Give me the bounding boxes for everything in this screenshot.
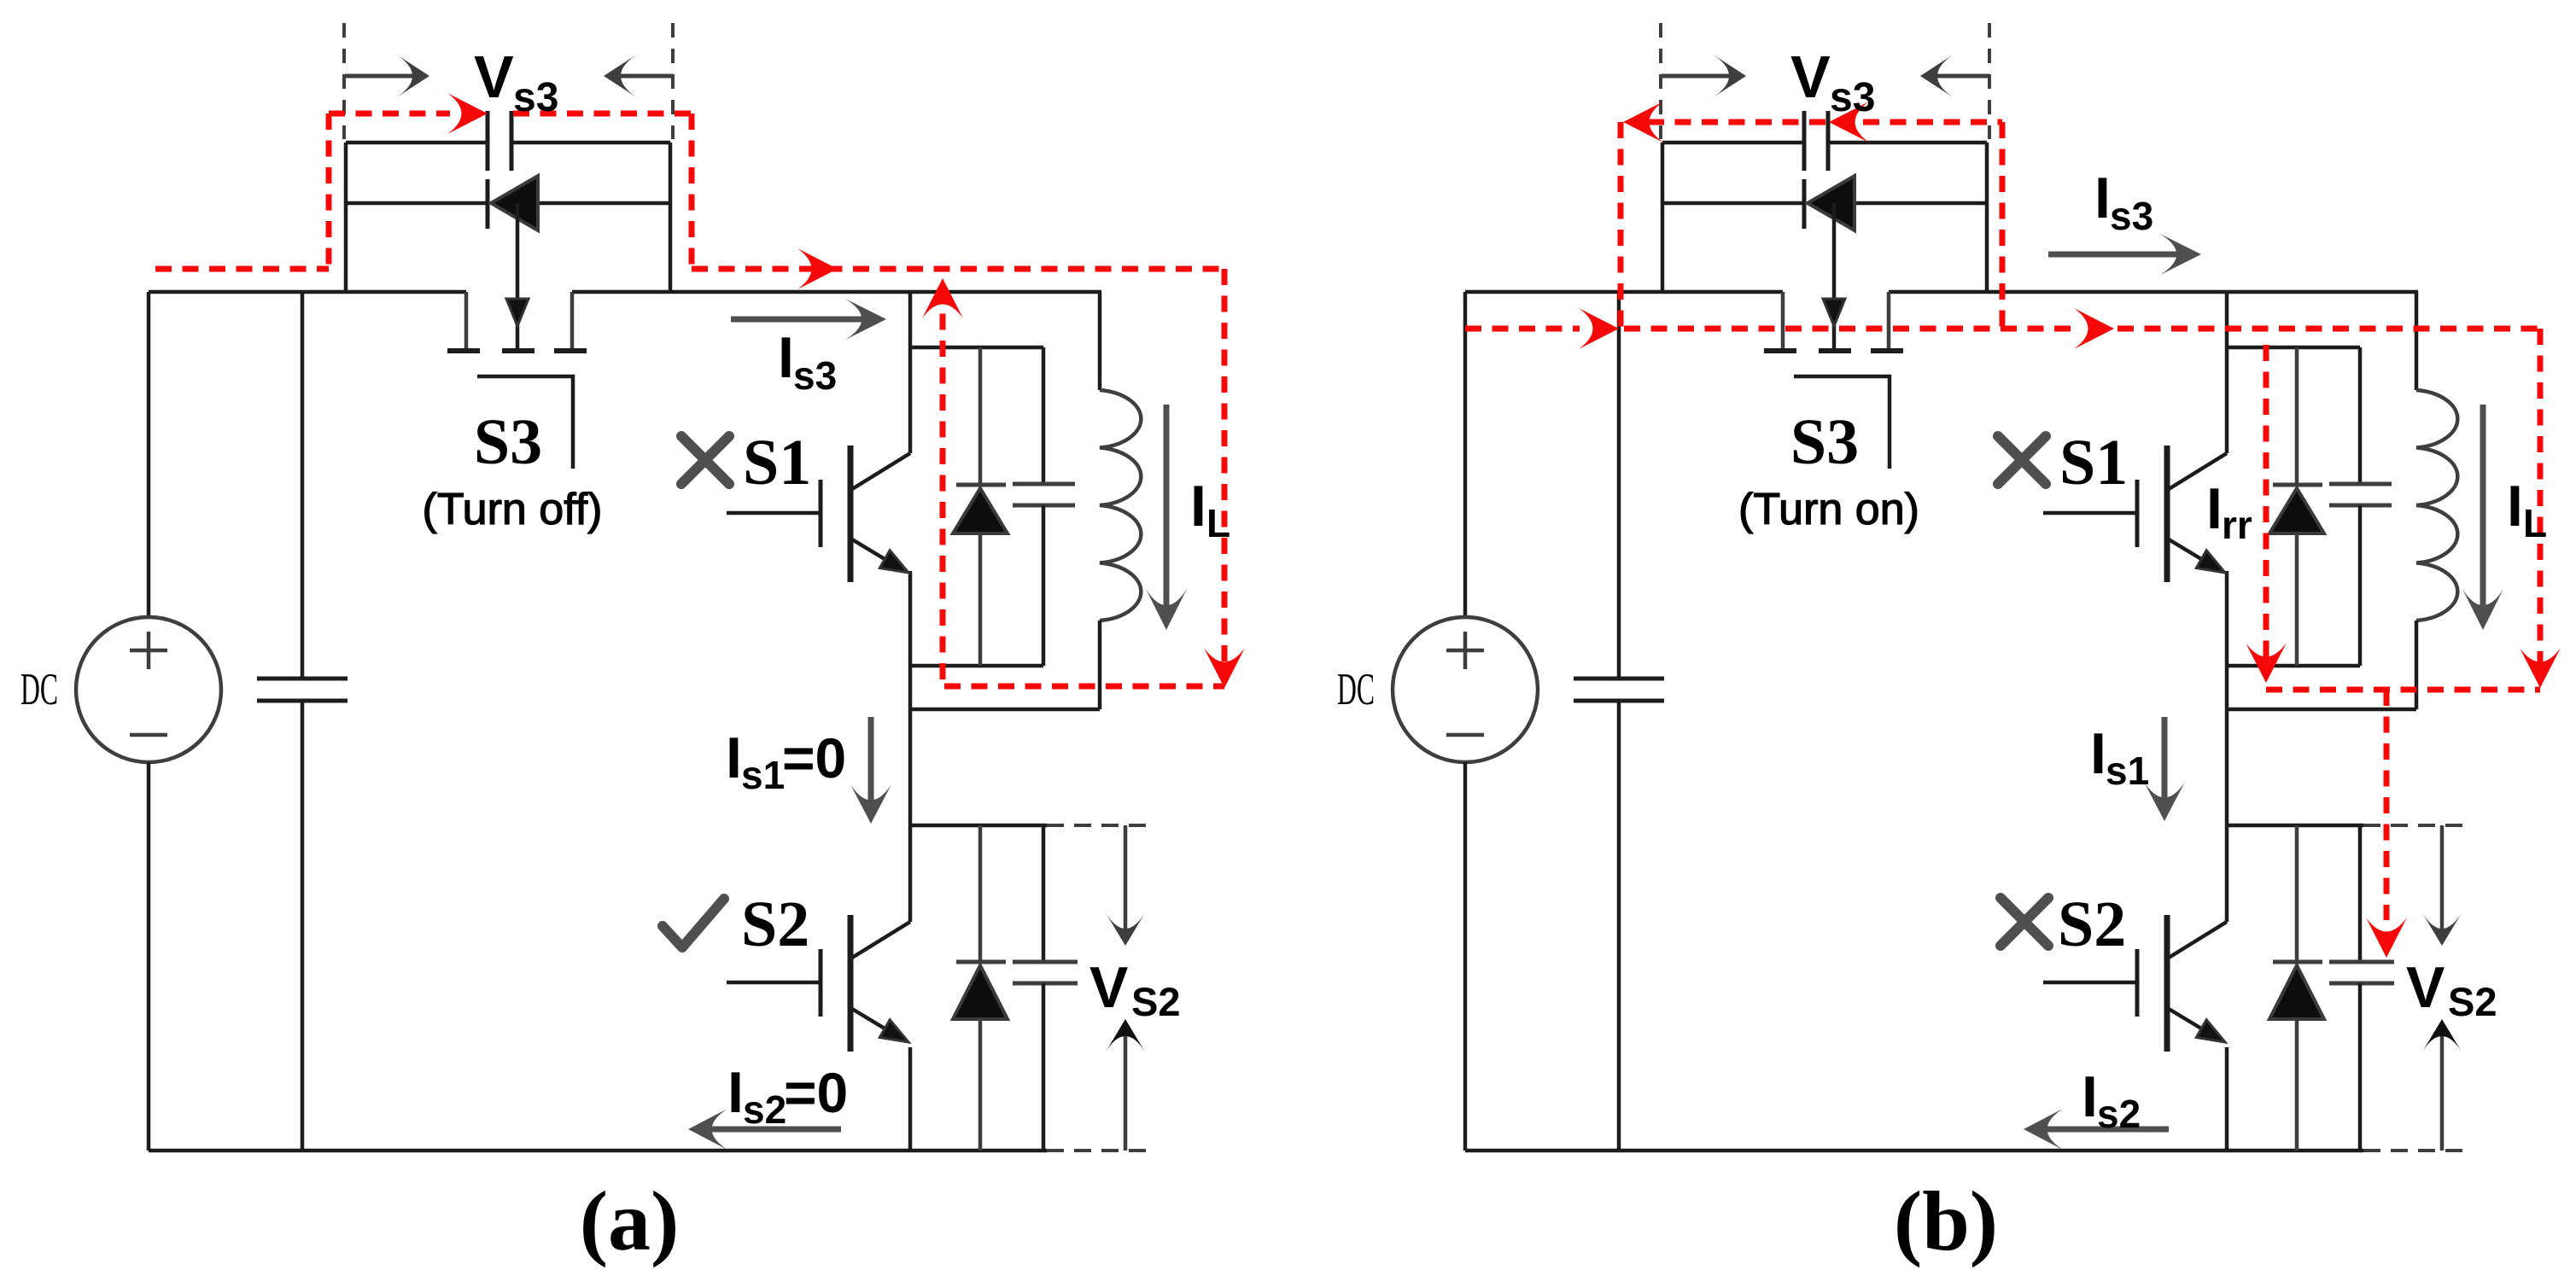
S1 snubber box top wire (a): [910, 346, 1043, 350]
measurement dashed guide left (a): [342, 23, 346, 139]
S1 snubber box top wire (b): [2227, 346, 2360, 350]
snubber diode Ds3 cathode bar (b): [1802, 179, 1807, 229]
svg-text:s1: s1: [2106, 749, 2149, 793]
load inductor L (a): [1098, 292, 1102, 390]
svg-text:I: I: [726, 725, 742, 790]
svg-text:s3: s3: [513, 75, 558, 120]
S2 snubber capacitor C2 (a): [1042, 825, 1046, 962]
svg-text:V: V: [474, 44, 514, 110]
svg-text:s1: s1: [741, 753, 785, 797]
measurement dashed guide right (a): [671, 23, 675, 139]
measurement dashed guide right (b): [1988, 23, 1991, 139]
dc-link capacitor (b): [1617, 292, 1621, 679]
cross mark on S1 (a): [681, 436, 729, 484]
MOSFET S3 channel bars (b): [1764, 348, 1796, 353]
red current path (a) : left horizontal into S3 loop: [155, 266, 329, 272]
S3 snubber box top wire (a): [346, 141, 486, 145]
bottom bus dashed extension (a): [1047, 1149, 1155, 1152]
IGBT S1 (b): [2169, 453, 2227, 489]
svg-text:S3: S3: [474, 406, 542, 478]
wire S2 snubber top (a): [910, 824, 1047, 828]
MOSFET S3 drain lead (b): [1887, 292, 1891, 348]
red current path (b) : top horizontal over Vs3 with left arrows: [1648, 119, 2002, 125]
dimension arrow right toward Vs3 (a): [616, 74, 673, 79]
svg-text:s2: s2: [2097, 1092, 2141, 1136]
S2 snubber capacitor C2 (b): [2358, 825, 2363, 962]
wire S1 assembly bottom (a): [910, 708, 1100, 712]
VS2 dimension arrow lower (b): [2440, 1031, 2445, 1151]
wire S1 leg vertical middle (a): [908, 571, 913, 922]
wire top bus right segment (a): [572, 290, 1101, 294]
load current IL arrow (b): [2480, 405, 2486, 613]
wire top bus left segment (a): [149, 290, 466, 294]
snubber capacitor Cs3 plates (b): [1802, 111, 1807, 171]
red current path (b) : left vertical down: [1618, 122, 1624, 329]
cross mark on S1 (b): [1998, 436, 2046, 484]
svg-text:S1: S1: [2059, 427, 2128, 498]
current Is3 arrow (b): [2048, 252, 2182, 258]
dimension arrow left toward Vs3 (a): [345, 74, 418, 79]
wire S2 snubber top (b): [2227, 824, 2363, 828]
red current path (a) : right vertical down: [689, 114, 695, 269]
S3 snubber box left edge (b): [1661, 143, 1665, 292]
MOSFET S3 source lead (b): [1781, 292, 1785, 348]
MOSFET S3 source lead (a): [464, 292, 469, 348]
MOSFET S3 channel bars (a): [447, 348, 480, 353]
wire S1 assembly bottom (b): [2227, 708, 2416, 712]
S1 snubber box bottom wire (b): [2227, 664, 2360, 668]
svg-text:S2: S2: [741, 889, 809, 960]
red current path (a) : horizontal toward S1 with arrow: [692, 266, 1224, 272]
svg-text:V: V: [2406, 955, 2445, 1020]
S3 snubber box top wire (b): [1662, 141, 1802, 145]
svg-text:V: V: [1089, 955, 1128, 1020]
svg-text:rr: rr: [2222, 503, 2252, 547]
svg-text:(Turn off): (Turn off): [423, 485, 603, 534]
S1 snubber box bottom wire (a): [910, 664, 1043, 668]
DC source V1 (b): [1463, 292, 1468, 617]
svg-text:=0: =0: [784, 1061, 848, 1124]
load inductor L (b): [2415, 292, 2419, 390]
S1 freewheeling diode D1 (a): [978, 347, 983, 485]
MOSFET S3 gate (a): [477, 376, 573, 469]
check mark on S2 (a): [663, 899, 724, 947]
red current path (b) : bottom horizontal: [2266, 687, 2540, 693]
S3 snubber box right edge (b): [1985, 143, 1989, 292]
MOSFET S3 drain lead (a): [570, 292, 575, 348]
IGBT S2 (b): [2169, 922, 2227, 958]
svg-text:s2: s2: [743, 1087, 786, 1132]
wire top bus left segment (b): [1465, 290, 1783, 294]
svg-text:S2: S2: [2058, 889, 2126, 960]
dimension arrow right toward Vs3 (b): [1932, 74, 1989, 79]
red current path (b) : drop to S2 snubber capacitor with arrow: [2384, 690, 2390, 920]
snubber diode Ds3 triangle (a): [491, 176, 538, 230]
red current path (b) : right vertical down: [2000, 122, 2006, 329]
svg-text:I: I: [2206, 476, 2223, 541]
current Is1 arrow (a): [868, 717, 874, 807]
svg-text:I: I: [2090, 721, 2106, 786]
MOSFET S3 body connection with down arrow (a): [516, 203, 520, 348]
svg-text:S3: S3: [1790, 406, 1859, 478]
S1 freewheeling diode D1 (b): [2295, 347, 2299, 485]
snubber diode Ds3 triangle (b): [1808, 176, 1855, 230]
red current path (b) : main horizontal with right arrows: [1465, 326, 1580, 332]
snubber diode Ds3 wire (a): [346, 201, 489, 206]
dimension arrow left toward Vs3 (b): [1662, 74, 1734, 79]
wire S1 leg vertical upper (a): [908, 292, 913, 453]
svg-text:S2: S2: [2448, 979, 2497, 1024]
red current path (b) : inner vertical down through D1 with arrow: [2263, 345, 2269, 667]
snubber diode Ds3 wire (b): [1662, 201, 1806, 206]
snubber diode Ds3 cathode bar (a): [486, 179, 490, 229]
svg-text:s3: s3: [1830, 75, 1875, 120]
wire S2 emitter vertical (b): [2225, 1047, 2229, 1151]
red current path (a) : outer vertical down with arrow: [1222, 269, 1228, 673]
svg-text:DC: DC: [20, 665, 58, 714]
current Is3 arrow (a): [731, 317, 869, 323]
MOSFET S3 gate (b): [1794, 376, 1890, 469]
MOSFET S3 body connection with down arrow (b): [1832, 203, 1837, 348]
svg-text:L: L: [1206, 501, 1230, 545]
wire bottom bus (b): [1465, 1149, 2363, 1153]
svg-text:I: I: [727, 1060, 744, 1125]
red current path (a) : bottom horizontal: [944, 684, 1224, 690]
svg-text:I: I: [1190, 474, 1206, 539]
wire S2 emitter vertical (a): [908, 1047, 913, 1151]
svg-text:=0: =0: [782, 726, 846, 789]
svg-text:(a): (a): [580, 1174, 680, 1268]
red current path (a) : left vertical up: [326, 114, 332, 269]
IGBT S1 (a): [852, 453, 910, 489]
measurement dashed guide left (b): [1659, 23, 1662, 139]
VS2 dimension arrow lower (a): [1124, 1031, 1128, 1151]
red current path (a) : top horizontal through Vs3 with arrow: [329, 111, 450, 117]
svg-text:I: I: [2082, 1064, 2098, 1129]
S2 freewheeling diode D2 (b): [2295, 825, 2299, 962]
current Is2 arrow (a): [705, 1127, 841, 1133]
S2 freewheeling diode D2 (a): [978, 825, 983, 962]
current Is1 arrow (b): [2162, 717, 2168, 804]
current Is2 arrow (b): [2041, 1127, 2169, 1133]
wire bottom bus (a): [149, 1149, 1047, 1153]
red current path (b) : outer vertical down with arrow: [2538, 329, 2544, 673]
red current path (a) : inner vertical up through D1 with arrow: [940, 287, 946, 686]
svg-text:I: I: [2507, 474, 2523, 539]
svg-text:I: I: [778, 325, 794, 390]
VS2 dimension arrow upper (b): [2440, 825, 2445, 934]
cross mark on S2 (b): [2001, 898, 2048, 946]
wire S1 leg vertical middle (b): [2225, 571, 2229, 922]
svg-text:I: I: [2094, 166, 2111, 230]
svg-text:S2: S2: [1131, 979, 1181, 1024]
svg-text:S1: S1: [743, 427, 811, 498]
dc-link capacitor (a): [301, 292, 305, 679]
wire S1 leg vertical upper (b): [2225, 292, 2229, 453]
IGBT S2 (a): [852, 922, 910, 958]
S1 snubber capacitor C1 (b): [2358, 347, 2363, 484]
S3 snubber box left edge (a): [344, 143, 348, 292]
svg-text:L: L: [2523, 501, 2547, 545]
S1 snubber capacitor C1 (a): [1042, 347, 1046, 484]
snubber capacitor Cs3 plates (a): [486, 111, 490, 171]
svg-text:(b): (b): [1894, 1174, 1998, 1268]
svg-text:(Turn on): (Turn on): [1738, 485, 1919, 534]
VS2 dimension arrow upper (a): [1124, 825, 1128, 934]
S3 snubber box right edge (a): [669, 143, 673, 292]
load current IL arrow (a): [1164, 405, 1170, 613]
bottom bus dashed extension (b): [2363, 1149, 2472, 1152]
svg-text:DC: DC: [1337, 665, 1375, 714]
wire top bus right segment (b): [1889, 290, 2418, 294]
svg-text:s3: s3: [793, 353, 837, 398]
svg-text:s3: s3: [2110, 194, 2153, 238]
DC source V1 (a): [147, 292, 151, 617]
svg-text:V: V: [1790, 44, 1831, 110]
